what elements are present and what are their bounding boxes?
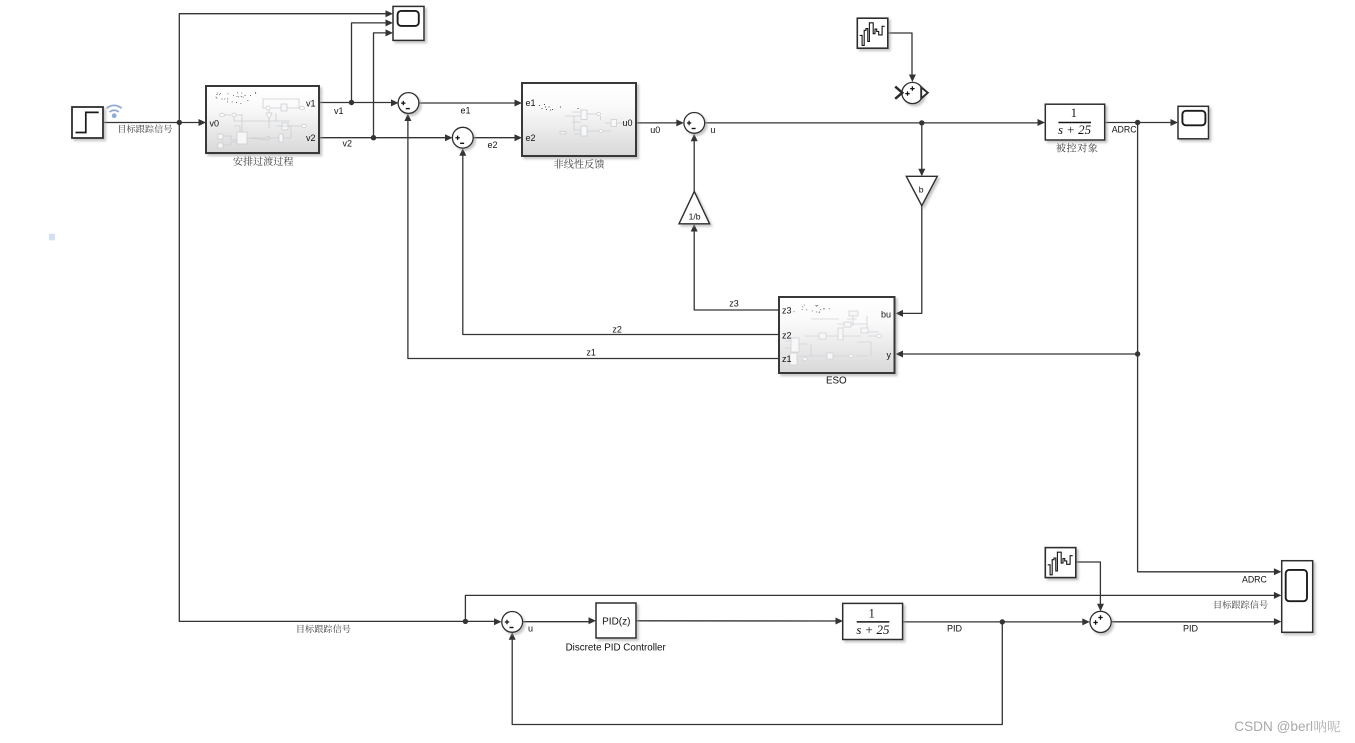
- svg-text:z2: z2: [782, 330, 792, 340]
- svg-text:z2: z2: [612, 324, 622, 334]
- svg-text:u0: u0: [622, 118, 632, 128]
- svg-text:s + 25: s + 25: [1058, 123, 1092, 137]
- svg-text:v2: v2: [306, 133, 316, 143]
- svg-text:z3: z3: [729, 299, 739, 309]
- svg-text:ESO: ESO: [826, 375, 847, 386]
- svg-text:z1: z1: [586, 348, 596, 358]
- svg-text:y: y: [887, 350, 892, 360]
- svg-text:1/b: 1/b: [689, 212, 701, 222]
- svg-text:PID: PID: [1183, 623, 1199, 633]
- svg-text:u: u: [528, 624, 533, 634]
- svg-text:v0: v0: [210, 119, 220, 129]
- svg-text:1: 1: [1071, 106, 1077, 120]
- svg-text:e1: e1: [526, 98, 536, 108]
- svg-text:ADRC: ADRC: [1112, 125, 1138, 135]
- svg-text:Discrete PID Controller: Discrete PID Controller: [566, 642, 667, 653]
- svg-text:e2: e2: [526, 133, 536, 143]
- svg-text:PID(z): PID(z): [602, 616, 630, 627]
- svg-text:v1: v1: [306, 98, 316, 108]
- svg-text:e1: e1: [461, 105, 471, 115]
- svg-text:u: u: [710, 125, 715, 135]
- svg-text:e2: e2: [488, 140, 498, 150]
- svg-text:z3: z3: [782, 305, 792, 315]
- svg-text:PID: PID: [947, 624, 963, 634]
- svg-text:z1: z1: [782, 354, 792, 364]
- svg-text:v2: v2: [343, 138, 353, 148]
- svg-text:CSDN @berl: CSDN @berl: [1234, 719, 1313, 734]
- svg-text:ADRC: ADRC: [1242, 574, 1268, 584]
- svg-text:1: 1: [869, 607, 875, 621]
- svg-text:b: b: [919, 185, 924, 195]
- svg-text:u0: u0: [650, 125, 660, 135]
- svg-text:bu: bu: [881, 309, 891, 319]
- svg-text:s + 25: s + 25: [856, 623, 890, 637]
- svg-text:v1: v1: [334, 106, 344, 116]
